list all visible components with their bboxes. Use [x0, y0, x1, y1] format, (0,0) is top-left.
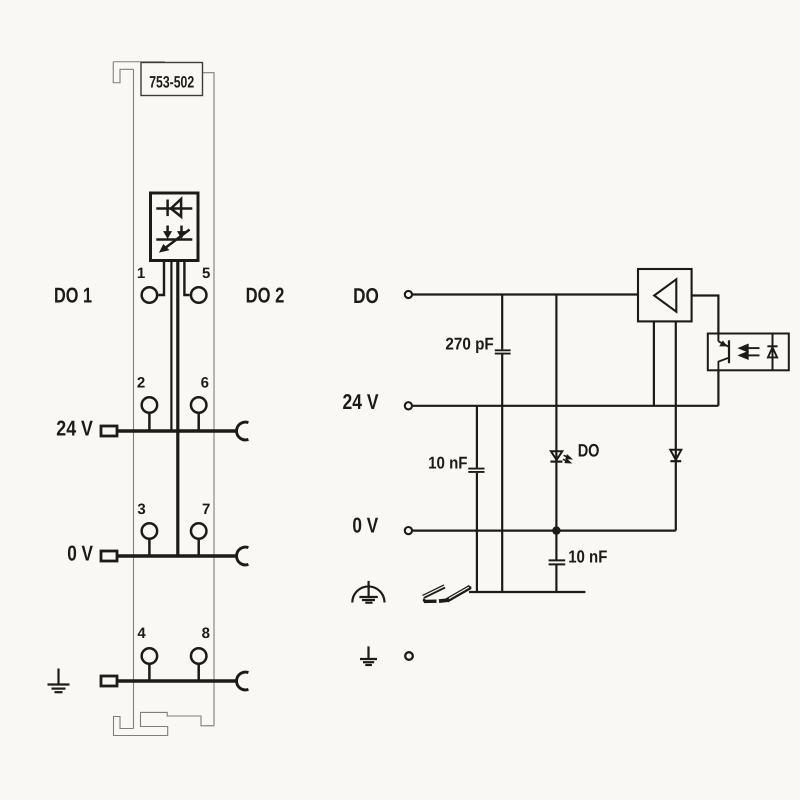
crescent contact 24V	[237, 422, 249, 440]
driver output wire	[692, 296, 719, 334]
pin circle 4	[142, 648, 158, 664]
LED DO	[550, 451, 562, 461]
svg-text:753-502: 753-502	[149, 74, 194, 92]
wire 24V feed (LED box to 24V rail)	[170, 259, 172, 431]
wire opto to 24V rail	[717, 370, 719, 406]
24V net line	[413, 405, 718, 407]
svg-text:270 pF: 270 pF	[445, 335, 493, 354]
svg-text:10 nF: 10 nF	[568, 547, 607, 567]
24V terminal circle	[405, 402, 412, 409]
crescent contact earth	[237, 672, 249, 690]
LED DO light arrows	[563, 455, 571, 462]
svg-text:24 V: 24 V	[343, 390, 380, 414]
label box 753-502	[141, 63, 203, 96]
svg-text:4: 4	[137, 625, 146, 642]
pin stems 2,6,3,7,4,8	[149, 405, 198, 681]
svg-text:DO: DO	[578, 441, 600, 461]
phototransistor emitter	[718, 358, 729, 371]
module outline 753-502	[113, 62, 214, 736]
capacitor 270 pF	[495, 350, 511, 353]
DO terminal circle	[405, 291, 412, 298]
driver box U1	[638, 269, 692, 321]
capacitor 270pF branch wire	[501, 295, 503, 593]
svg-text:DO: DO	[353, 284, 379, 308]
wire from LED box to pin 5	[184, 259, 189, 295]
wire driver to 24V (left)	[653, 321, 655, 405]
LED symbol arrowheads (bottom)	[159, 231, 186, 253]
crescent contact 0V	[237, 547, 249, 565]
DO net line	[413, 293, 638, 295]
0V net line	[413, 529, 676, 531]
svg-text:DO 2: DO 2	[246, 283, 285, 307]
pin circle 8	[191, 648, 207, 664]
svg-text:5: 5	[202, 265, 210, 282]
0V terminal circle	[405, 527, 412, 534]
driver triangle	[654, 279, 676, 311]
earth rail (left)	[116, 679, 236, 682]
earth symbol (bottom right)	[360, 646, 377, 665]
wire from LED box to pin 1	[158, 259, 164, 295]
svg-text:3: 3	[137, 501, 145, 518]
LED symbol arrows (bottom)	[156, 226, 192, 249]
LED symbol diode (top)	[156, 199, 192, 217]
optocoupler diode	[772, 334, 774, 371]
terminal square earth	[101, 676, 117, 686]
diode D1	[670, 450, 681, 461]
pin circle 3	[142, 523, 158, 539]
phototransistor wire in	[717, 334, 719, 342]
junction dot 0V	[552, 526, 560, 534]
pin circle 6	[191, 397, 207, 413]
svg-text:DO 1: DO 1	[54, 284, 92, 308]
terminal square 0V	[101, 551, 117, 561]
pin circle 2	[142, 397, 158, 413]
LED DO branch wire	[555, 295, 557, 531]
earth rail (right)	[469, 591, 585, 593]
capacitor 10 nF (24V)	[468, 469, 484, 472]
pin circle 1	[142, 287, 158, 303]
terminal square 24V	[101, 426, 117, 436]
svg-text:2: 2	[137, 374, 145, 391]
earth terminal circle	[405, 652, 413, 660]
svg-text:24 V: 24 V	[56, 416, 93, 440]
optocoupler light arrows	[740, 345, 760, 359]
status LED box	[151, 193, 199, 261]
phototransistor base bar	[728, 340, 730, 363]
chassis earth symbol	[352, 581, 384, 603]
svg-text:6: 6	[201, 374, 209, 391]
24V rail (left)	[116, 429, 236, 432]
earth symbol (module, bottom left)	[48, 669, 70, 693]
capacitor 10nF (0V) branch wire	[555, 531, 557, 592]
capacitor 10nF (24V) branch wire	[476, 406, 478, 592]
DIN rail symbol	[422, 584, 471, 603]
phototransistor collector	[718, 341, 729, 347]
svg-text:10 nF: 10 nF	[428, 454, 467, 473]
capacitor 10 nF (0V)	[549, 560, 566, 564]
wire driver to 24V (right)	[675, 321, 677, 405]
svg-text:0 V: 0 V	[67, 542, 93, 566]
svg-text:7: 7	[202, 501, 210, 518]
wire 0V feed (LED box to 0V rail)	[176, 259, 179, 556]
svg-text:0 V: 0 V	[352, 514, 378, 538]
optocoupler box	[708, 334, 789, 371]
0V rail (left)	[116, 554, 236, 557]
pin circle 7	[191, 523, 207, 539]
pin circle 5	[191, 287, 207, 303]
svg-text:1: 1	[137, 265, 145, 282]
diode branch (24V to 0V)	[675, 406, 677, 531]
svg-text:8: 8	[202, 625, 210, 642]
